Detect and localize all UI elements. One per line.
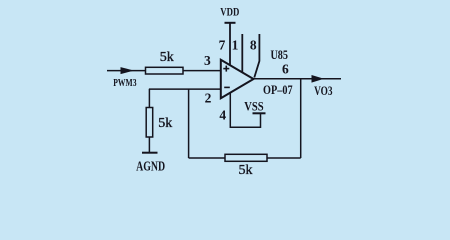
wire output pin 6	[254, 78, 342, 80]
op-amp U85 triangle body	[221, 60, 254, 98]
svg-text:4: 4	[219, 107, 226, 122]
pin number 7	[219, 38, 226, 53]
power VDD label	[220, 5, 239, 19]
power VSS bar symbol	[253, 112, 266, 114]
op-amp minus input marking	[224, 86, 230, 88]
resistor 5k input	[146, 67, 184, 74]
node VO3 output terminal arrow	[312, 75, 325, 83]
svg-text:VO3: VO3	[314, 83, 333, 98]
power VDD bar symbol	[225, 22, 236, 24]
value label 5k ground resistor	[158, 116, 172, 131]
svg-text:OP–07: OP–07	[263, 83, 293, 97]
power VSS label	[244, 99, 263, 113]
svg-text:VSS: VSS	[244, 99, 263, 113]
pin number 1	[232, 38, 239, 53]
wire feedback left leg down	[188, 89, 190, 158]
resistor 5k feedback	[225, 154, 267, 161]
ground label AGND	[136, 159, 165, 174]
wire pin1 stub to op-amp top edge	[241, 34, 243, 72]
node PWM3 input terminal arrow	[121, 67, 135, 74]
net label PWM3	[113, 77, 137, 89]
wire feedback right leg down	[300, 79, 302, 158]
svg-text:5k: 5k	[160, 50, 174, 65]
part value label OP-07	[263, 83, 293, 97]
wire feedback bottom right segment	[267, 157, 301, 159]
pin number 3	[204, 53, 211, 68]
svg-text:AGND: AGND	[136, 159, 165, 174]
svg-text:8: 8	[250, 38, 257, 53]
svg-text:2: 2	[205, 90, 212, 105]
wire resistor to ground bar	[148, 137, 150, 153]
wire inverting input pin 2 horizontal	[149, 88, 221, 90]
net label VO3	[314, 83, 333, 98]
svg-text:1: 1	[232, 38, 239, 53]
wire pin4 routing to VSS	[230, 93, 260, 128]
value label 5k feedback resistor	[239, 163, 253, 178]
resistor 5k to ground	[146, 108, 153, 138]
svg-text:PWM3: PWM3	[113, 77, 137, 89]
op-amp plus input marking	[223, 66, 229, 72]
value label 5k input resistor	[160, 50, 174, 65]
wire from pin2 node down to grounded resistor	[148, 89, 150, 107]
wire pin7 supply from VDD bar to op-amp top edge	[229, 23, 231, 66]
reference designator U85	[270, 47, 288, 62]
wire input right segment to pin 3	[183, 70, 221, 72]
svg-text:7: 7	[219, 38, 226, 53]
pin number 2	[205, 90, 212, 105]
ground AGND bar symbol	[142, 152, 158, 154]
wire input left segment	[107, 70, 146, 72]
pin number 4	[219, 107, 226, 122]
svg-text:5k: 5k	[239, 163, 253, 178]
pin number 6	[282, 62, 289, 77]
pin number 8	[250, 38, 257, 53]
wire feedback bottom left segment	[189, 157, 225, 159]
wire pin8 stub bending to op-amp apex	[254, 34, 259, 78]
svg-text:3: 3	[204, 53, 211, 68]
svg-text:6: 6	[282, 62, 289, 77]
svg-text:U85: U85	[270, 47, 288, 62]
svg-text:5k: 5k	[158, 116, 172, 131]
svg-text:VDD: VDD	[220, 5, 239, 19]
